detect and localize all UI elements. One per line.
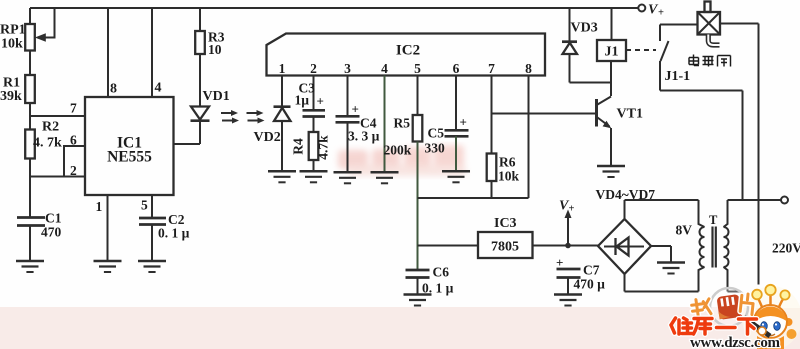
svg-text:R4: R4 [291,138,306,155]
wire IC2 pin8 [528,76,530,199]
ground [597,166,625,177]
wire [29,51,31,76]
svg-text:VD1: VD1 [203,89,230,104]
svg-text:6: 6 [70,133,77,148]
svg-text:6: 6 [453,61,460,76]
wire valve right [720,23,759,25]
wire switch to mains [660,90,743,92]
svg-text:3: 3 [344,61,351,76]
svg-text:3. 3 µ: 3. 3 µ [348,129,380,144]
wire primary bottom [728,291,741,293]
resistor R2 [25,130,35,159]
svg-text:+: + [658,8,664,19]
wire [199,54,201,107]
wire pin4 [151,8,153,97]
wire J1 top [611,8,613,40]
wire switch bottom [659,61,661,91]
wire bottom bus [418,197,529,199]
svg-text:5: 5 [414,61,421,76]
svg-text:J1: J1 [605,45,619,60]
wire IC1 pin6 [64,146,85,177]
terminal 220V [781,197,788,204]
pink watermark band bottom [0,307,800,349]
svg-text:+: + [569,204,575,215]
ground [404,295,432,306]
wire IC2 pin4 [384,76,386,173]
wire IC2 pin1 to VD2 [281,76,283,107]
ground [371,172,399,183]
svg-text:7805: 7805 [491,240,519,255]
LED VD1 [191,107,209,120]
wire bridge bottom rail [624,274,626,292]
svg-text:VD2: VD2 [254,130,281,145]
svg-text:R5: R5 [394,116,411,131]
ground [16,261,44,272]
wire [29,226,31,262]
svg-text:4: 4 [155,81,162,96]
svg-text:4.7k: 4.7k [316,135,331,160]
transistor VT1 [595,99,598,127]
wire IC2 pin5 [417,76,419,116]
wire pin5 down to C6 [417,142,419,270]
node junction dot [565,243,571,249]
svg-text:NE555: NE555 [107,149,152,166]
svg-text:C1: C1 [45,211,62,226]
label 电磁阀 [689,55,731,67]
capacitor C7 [557,268,581,271]
pencil [744,318,770,337]
resistor R4 [309,132,319,160]
wire pin3 [174,143,201,145]
svg-text:C5: C5 [428,126,445,141]
svg-text:R6: R6 [499,155,516,170]
svg-text:470 µ: 470 µ [574,277,606,292]
opto arrows [221,110,265,124]
watermark char 片 [740,293,754,314]
transformer primary winding [724,200,728,227]
svg-text:R2: R2 [42,120,59,135]
svg-text:+: + [556,255,563,270]
watermark white cover [741,285,800,308]
voltage regulator IC3 7805 [478,232,533,258]
wire base node [492,113,597,115]
transformer secondary winding [699,200,705,227]
svg-text:C7: C7 [583,263,600,278]
watermark char 找 [691,298,711,317]
IC2 box [267,34,546,76]
wire bridge right [651,245,671,247]
wire IC2 pin3 [347,76,349,117]
wire pin8 [107,8,109,97]
capacitor C5 [445,129,469,132]
svg-text:5: 5 [141,198,148,213]
wire [29,159,31,218]
potentiometer RP1 [25,24,35,51]
wire [29,103,31,130]
V+ arrow [567,217,569,246]
svg-text:8: 8 [525,61,532,76]
svg-text:470: 470 [41,225,62,240]
ground [268,171,296,182]
wire top V+ rail [30,7,638,9]
mascot [741,285,797,349]
op-amp IC1 NE555 [85,97,174,195]
ground [94,261,122,272]
svg-text:VD3: VD3 [571,21,598,36]
svg-text:200k: 200k [384,143,412,158]
svg-text:7: 7 [488,61,495,76]
ground [442,171,470,182]
svg-text:39k: 39k [0,89,22,104]
resistor R5 [413,115,423,142]
wire R3 column [199,8,201,31]
svg-text:10k: 10k [1,37,23,52]
wire 220V rail [728,199,782,201]
svg-text:4. 7k: 4. 7k [33,136,62,151]
svg-text:8V: 8V [676,223,693,238]
wire switch top [659,25,661,42]
svg-text:RP1: RP1 [0,23,26,38]
svg-text:220V: 220V [772,241,800,256]
faint center watermark blobs [338,145,466,176]
wire pin1 [107,195,109,261]
svg-text:0. 1 µ: 0. 1 µ [158,226,190,241]
ground [138,261,166,272]
svg-text:T: T [709,213,718,227]
capacitor C1 [17,216,45,219]
svg-text:7: 7 [70,101,77,116]
photodiode VD2 [274,105,291,108]
ground [554,295,582,306]
wire bridge top to secondary [624,200,626,219]
svg-text:www.dzsc.com: www.dzsc.com [690,335,781,349]
ground [300,171,328,182]
svg-text:+: + [352,102,359,117]
wire pin5 [151,195,153,217]
watermark text 维库一下 [671,318,757,334]
capacitor C2 [139,217,166,220]
wire IC3 out [533,245,599,247]
ground [657,263,685,274]
wire down to 220V rail [742,91,744,201]
wire IC2 pin6 [455,76,457,131]
svg-text:VT1: VT1 [617,107,643,122]
svg-text:2: 2 [310,61,317,76]
wire to IC3 [418,245,479,247]
transformer core [711,227,713,268]
wire IC2 pin7 [491,76,493,154]
svg-text:+: + [317,94,324,109]
resistor R6 [487,154,497,182]
svg-text:8: 8 [110,82,117,97]
relay contact dashed link [626,49,656,51]
resistor R1 [25,75,35,103]
diode VD3 [569,8,571,42]
resistor R3 [195,31,205,54]
svg-text:J1-1: J1-1 [665,69,691,84]
wire IC1 pin7 [30,115,85,117]
solenoid valve symbol [698,12,721,35]
svg-text:330: 330 [425,141,446,156]
svg-text:1: 1 [96,199,103,214]
terminal V+ top right [638,5,645,12]
wire RP1 top [29,8,31,24]
svg-text:10k: 10k [498,169,520,184]
capacitor C3 [303,109,326,112]
svg-text:IC2: IC2 [396,43,420,59]
capacitor C4 [336,115,360,118]
svg-text:4: 4 [381,61,388,76]
wire IC2 pin2 [313,76,315,111]
switch blade [661,41,669,61]
ground [334,172,362,183]
wire switch to valve [660,24,698,26]
svg-text:1µ: 1µ [295,93,310,108]
svg-text:+: + [460,115,467,130]
wire VD3 J1 junction to collector [570,82,612,84]
svg-text:1: 1 [279,61,286,76]
relay coil J1 [597,40,626,61]
svg-text:IC3: IC3 [494,216,517,231]
watermark stamp circle [710,288,748,326]
capacitor C6 [406,269,430,272]
wire IC1 pin2 [30,176,85,178]
svg-text:C6: C6 [433,265,450,280]
svg-text:10: 10 [208,42,222,57]
svg-text:2: 2 [70,163,77,178]
